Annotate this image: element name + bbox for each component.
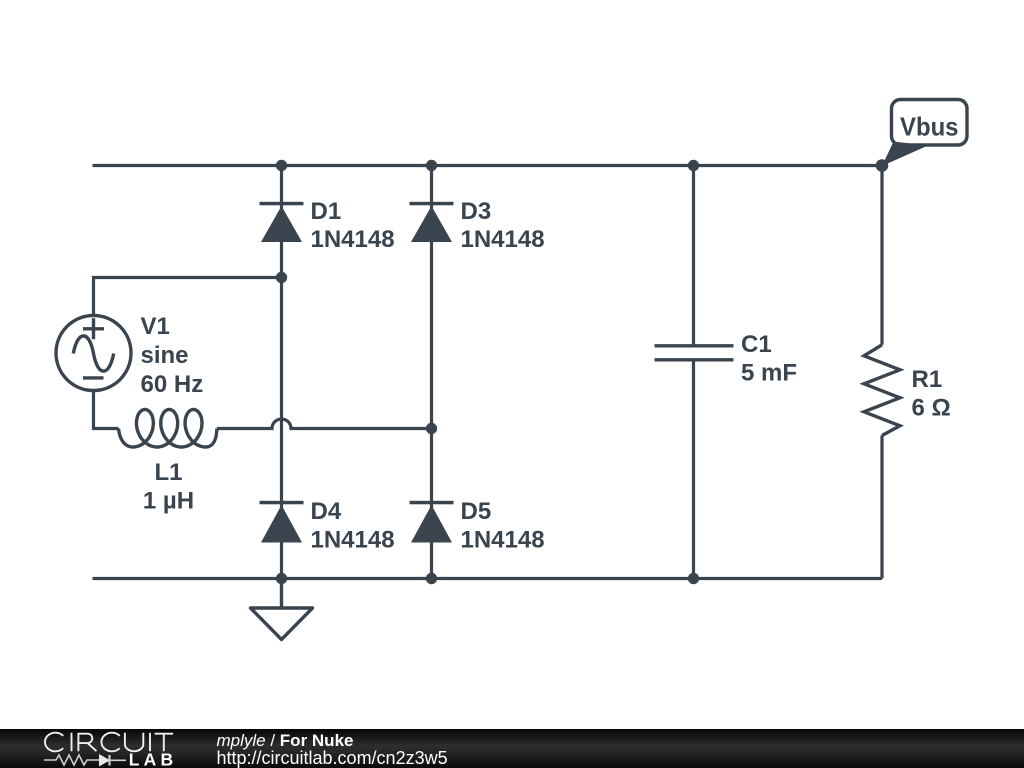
svg-text:D5: D5: [461, 498, 492, 525]
svg-text:60 Hz: 60 Hz: [141, 371, 204, 398]
svg-text:R1: R1: [912, 366, 943, 393]
junction D5 anode / bottom bus: [426, 573, 437, 584]
svg-text:1N4148: 1N4148: [311, 226, 395, 253]
junction D3 cathode / top bus: [426, 160, 437, 171]
wire L1 to D3 branch with hop over D1 branch: [217, 419, 432, 429]
wire R1 bottom lead: [880, 436, 883, 579]
wire D3-D5 vertical branch: [430, 166, 433, 579]
svg-text:D1: D1: [311, 198, 342, 225]
diode D3: [410, 202, 454, 242]
svg-text:1N4148: 1N4148: [461, 226, 545, 253]
node Vbus flag: [882, 100, 967, 167]
svg-text:6 Ω: 6 Ω: [912, 395, 951, 422]
logo CIRCUIT: [45, 733, 173, 752]
junction L1 wire / D3-D5 branch: [426, 423, 437, 434]
svg-text:http://circuitlab.com/cn2z3w5: http://circuitlab.com/cn2z3w5: [217, 748, 448, 768]
junction V1 plus / D1-D4 branch: [276, 272, 287, 283]
svg-text:L1: L1: [154, 459, 182, 486]
svg-text:sine: sine: [141, 342, 189, 369]
wire C1 top lead: [692, 166, 695, 345]
logo schematic squiggle: [44, 755, 126, 766]
svg-text:D3: D3: [461, 198, 492, 225]
diode D5: [410, 501, 454, 543]
wire top bus: [93, 164, 883, 167]
svg-text:5 mF: 5 mF: [741, 360, 797, 387]
svg-text:D4: D4: [311, 498, 342, 525]
svg-text:Vbus: Vbus: [900, 112, 959, 142]
junction C1 / top bus: [688, 160, 699, 171]
capacitor C1: [655, 346, 734, 360]
diode D1: [260, 202, 304, 242]
svg-text:1 µH: 1 µH: [143, 488, 194, 515]
node Vbus junction: [876, 159, 889, 172]
wire V1 minus down to L1: [94, 391, 119, 429]
svg-text:LAB: LAB: [129, 750, 178, 768]
voltage source V1: [56, 316, 131, 391]
wire bottom bus: [93, 577, 883, 580]
svg-text:V1: V1: [141, 313, 170, 340]
junction D4 anode / bottom bus: [276, 573, 287, 584]
footer bar: [0, 729, 1024, 768]
junction C1 / bottom bus: [688, 573, 699, 584]
svg-text:C1: C1: [741, 331, 772, 358]
diode D4: [260, 501, 304, 543]
svg-text:1N4148: 1N4148: [461, 527, 545, 554]
wire R1 top lead: [880, 166, 883, 345]
wire D1-D4 vertical branch: [280, 166, 283, 579]
inductor L1: [119, 410, 217, 448]
wire C1 bottom lead: [692, 361, 695, 579]
ground: [251, 579, 313, 640]
svg-text:1N4148: 1N4148: [311, 527, 395, 554]
junction D1 cathode / top bus: [276, 160, 287, 171]
resistor R1: [864, 345, 900, 436]
wire V1 plus to bridge: [94, 278, 282, 316]
